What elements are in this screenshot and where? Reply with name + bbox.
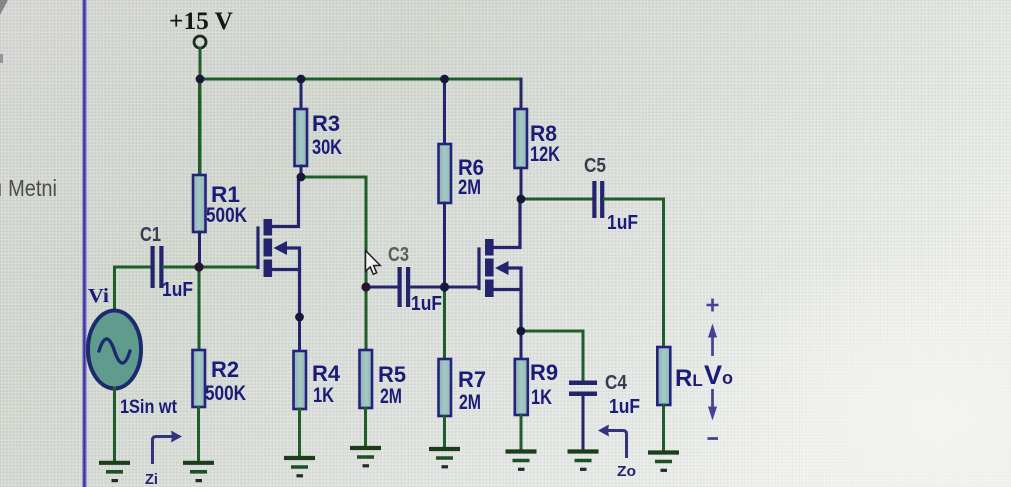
transistor Q1 source stub xyxy=(272,268,300,271)
resistor R8 lead top xyxy=(520,79,523,109)
resistor R6 lead top xyxy=(443,79,446,144)
wire junction to C4 xyxy=(521,331,583,381)
transistor Q2 gate plate xyxy=(477,249,480,289)
transistor Q2 drain stub xyxy=(494,199,520,248)
svg-text:500K: 500K xyxy=(206,204,247,227)
wire C3 junction to left plate xyxy=(366,286,398,289)
wire Q1 source to R4 xyxy=(298,317,301,351)
screen edge mark top-left xyxy=(0,0,8,15)
junction C3 left xyxy=(361,282,370,291)
wire C3 right plate to R7 junction xyxy=(410,286,445,289)
svg-text:30K: 30K xyxy=(312,136,342,159)
junction Q1 source xyxy=(295,313,304,322)
svg-text:ı Metni: ı Metni xyxy=(0,175,57,201)
wire C1 input segment xyxy=(115,266,152,269)
capacitor C4 plate top xyxy=(569,381,597,386)
transistor Q2 source stub xyxy=(494,288,521,291)
arrow Zo xyxy=(607,431,627,459)
svg-text:12K: 12K xyxy=(530,143,560,166)
resistor R4 lead bottom xyxy=(298,409,301,456)
resistor R8 xyxy=(515,109,528,168)
arrow Zi xyxy=(153,437,174,465)
svg-text:R9: R9 xyxy=(530,360,558,385)
resistor R9 xyxy=(515,359,528,415)
label Vo plus sign xyxy=(707,299,719,312)
junction C3-R6-R7-gate xyxy=(440,282,449,291)
wire C1 to R1 junction xyxy=(164,266,200,269)
wire C3 column down to R5 xyxy=(365,287,368,350)
svg-text:Zo: Zo xyxy=(617,463,636,480)
svg-text:1uF: 1uF xyxy=(609,396,640,418)
wire C5 to RL column xyxy=(605,199,664,347)
junction rail-R3 xyxy=(297,75,306,84)
capacitor C4 lead bottom xyxy=(582,396,585,450)
svg-text:1Sin wt: 1Sin wt xyxy=(120,397,178,418)
svg-text:1uF: 1uF xyxy=(162,279,193,301)
capacitor C1 plate right xyxy=(159,246,163,288)
mouse cursor xyxy=(366,251,381,275)
wire Vi source top xyxy=(113,267,116,311)
ground R9 xyxy=(506,452,537,470)
resistor R3 xyxy=(295,109,308,166)
wire rail down to R1 xyxy=(199,79,202,175)
capacitor C5 plate left xyxy=(592,181,596,218)
resistor R3 lead top xyxy=(300,79,303,109)
label Vo minus sign xyxy=(708,437,719,440)
resistor R1 lead top xyxy=(198,79,201,175)
capacitor C3 plate right xyxy=(406,267,410,307)
resistor R9 lead bottom xyxy=(520,415,523,450)
transistor Q1 drain stub xyxy=(272,177,299,227)
arrow Vo down xyxy=(711,389,714,411)
resistor R1 xyxy=(193,175,206,232)
junction rail-R1 xyxy=(196,75,205,84)
svg-text:C4: C4 xyxy=(605,372,628,394)
transistor Q2 channel top segment xyxy=(485,239,494,256)
resistor R6 lead bottom xyxy=(443,203,446,287)
background sheen bottom right xyxy=(680,240,1011,487)
transistor Q1 channel middle segment xyxy=(264,239,273,257)
resistor R5 lead bottom xyxy=(364,408,367,446)
capacitor C5 plate right xyxy=(600,181,604,218)
ground RL xyxy=(648,453,679,471)
resistor RL xyxy=(657,347,670,405)
transistor Q1 gate plate xyxy=(256,228,259,268)
screen edge mark left xyxy=(0,54,3,63)
svg-text:R3: R3 xyxy=(312,111,340,136)
source Vi ellipse xyxy=(88,311,141,389)
svg-text:R4: R4 xyxy=(312,361,341,386)
transistor Q2 arrow stub xyxy=(508,268,522,331)
transistor Q1 arrow stub xyxy=(286,248,300,317)
ground Vi xyxy=(99,463,130,481)
svg-text:1uF: 1uF xyxy=(411,293,442,315)
wire R3 bottom to C3 column xyxy=(301,177,366,287)
resistor RL lead bottom xyxy=(662,405,665,451)
ground C4 xyxy=(568,452,599,470)
wire Q2 source junction to R9 xyxy=(520,331,523,359)
transistor Q2 channel bottom segment xyxy=(485,280,494,298)
resistor R1 lead bottom xyxy=(198,232,201,267)
resistor R7 lead bottom xyxy=(443,416,446,447)
resistor R5 xyxy=(360,350,373,408)
resistor R7 lead top xyxy=(443,287,446,359)
svg-text:1uF: 1uF xyxy=(607,212,638,234)
wire Vi source bottom xyxy=(113,388,116,461)
resistor R8 lead bottom xyxy=(520,168,523,199)
svg-text:2M: 2M xyxy=(459,391,481,414)
junction R8-C5-Q2 drain xyxy=(517,195,526,204)
junction R3 bottom xyxy=(297,173,306,182)
junction Q2 source-R9-C4 xyxy=(517,327,526,336)
window border line xyxy=(82,0,86,487)
capacitor C4 plate bottom xyxy=(569,392,597,397)
resistor R3 lead bottom xyxy=(300,166,303,177)
svg-text:Vi: Vi xyxy=(88,285,109,307)
transistor Q1 channel bottom segment xyxy=(264,260,273,278)
ground R7 xyxy=(429,449,460,467)
svg-text:C5: C5 xyxy=(584,155,606,177)
svg-text:1K: 1K xyxy=(313,384,334,407)
svg-text:1K: 1K xyxy=(531,386,552,409)
wire power to rail xyxy=(199,48,202,79)
arrow Vo up xyxy=(711,333,714,356)
resistor R7 xyxy=(439,359,452,416)
wire to Q2 gate xyxy=(445,286,479,289)
junction rail-R6 xyxy=(440,75,449,84)
svg-text:2M: 2M xyxy=(380,385,402,408)
svg-text:+15 V: +15 V xyxy=(169,8,233,35)
svg-text:R7: R7 xyxy=(458,367,486,392)
ground R5 xyxy=(350,448,381,466)
ground R4 xyxy=(284,458,315,476)
resistor R2 xyxy=(193,350,206,407)
junction R1-C1-gate xyxy=(194,262,203,271)
capacitor C3 plate left xyxy=(398,267,402,307)
transistor Q2 channel middle segment xyxy=(485,259,494,277)
wire R8 bottom to C5 xyxy=(521,198,592,201)
power terminal +15V circle xyxy=(194,36,206,48)
transistor Q1 arrow xyxy=(274,241,288,255)
resistor R6 xyxy=(439,144,452,203)
capacitor C1 plate left xyxy=(151,246,155,288)
resistor R2 lead bottom xyxy=(197,407,200,461)
resistor R4 xyxy=(294,351,307,409)
svg-text:C1: C1 xyxy=(140,224,161,246)
wire top rail xyxy=(200,78,521,81)
svg-text:500K: 500K xyxy=(205,382,246,405)
ground R2 xyxy=(183,463,214,481)
svg-text:R5: R5 xyxy=(378,362,406,387)
wire junction down to R2 xyxy=(198,267,201,350)
wire junction to Q1 gate xyxy=(199,266,258,269)
transistor Q1 channel top segment xyxy=(264,219,273,236)
svg-text:C3: C3 xyxy=(388,244,409,266)
svg-text:R2: R2 xyxy=(211,357,239,382)
svg-text:2M: 2M xyxy=(458,176,481,199)
svg-text:Zi: Zi xyxy=(145,471,158,487)
transistor Q2 arrow xyxy=(495,261,509,275)
source Vi sine symbol xyxy=(99,339,130,363)
